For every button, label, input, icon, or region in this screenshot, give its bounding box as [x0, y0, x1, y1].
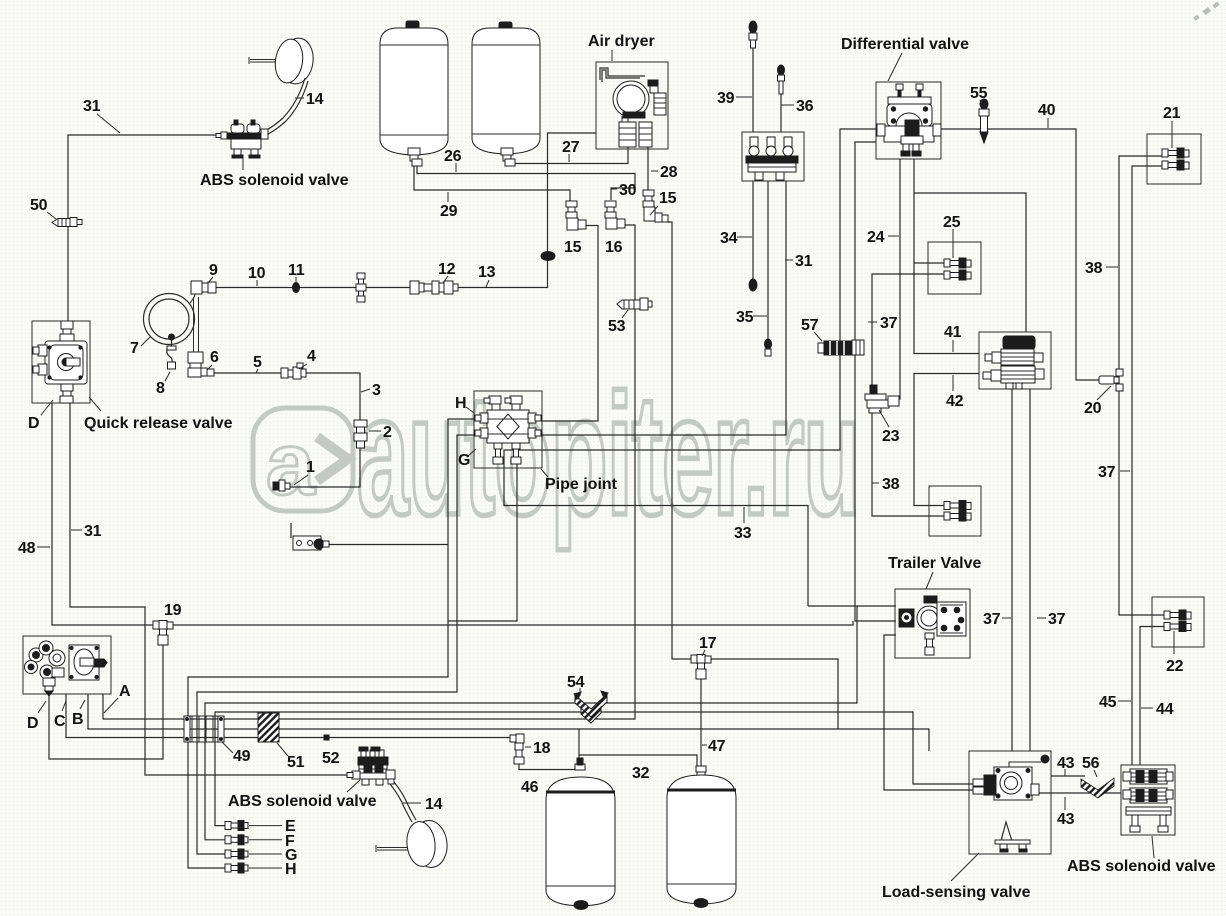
svg-text:Quick release valve: Quick release valve — [84, 415, 233, 432]
svg-text:8: 8 — [156, 380, 165, 397]
svg-text:52: 52 — [322, 750, 340, 767]
F fitting — [225, 835, 248, 845]
svg-text:51: 51 — [287, 754, 305, 771]
svg-text:5: 5 — [253, 354, 262, 371]
watermark autopiter.ru — [253, 360, 859, 551]
fitting 36 — [778, 65, 785, 94]
svg-text:15: 15 — [659, 190, 677, 207]
svg-text:D: D — [28, 415, 39, 432]
four-circuit protection valve box — [23, 636, 111, 694]
air tank top 2 — [472, 22, 540, 154]
bulkhead union — [356, 273, 366, 302]
wire compressor line 13 riser to air dryer — [458, 133, 596, 288]
svg-text:22: 22 — [1166, 658, 1184, 675]
grommet bead on riser — [541, 252, 555, 261]
svg-text:30: 30 — [619, 182, 637, 199]
wire A-line elbow16 down to four-circuit valve A — [103, 225, 635, 719]
svg-text:53: 53 — [608, 318, 626, 335]
svg-text:25: 25 — [943, 214, 961, 231]
elbow 6 below coil — [188, 352, 214, 377]
wire 31 from ABS solenoid valve to quick release valve — [68, 135, 225, 321]
wire 43 lower load sensing to ABS valve — [1037, 792, 1121, 794]
brake chamber top left — [249, 36, 316, 86]
wire valve 41/42 bottom drops to load-sensing — [1012, 389, 1030, 751]
four-circuit protection valve — [25, 641, 108, 696]
wire trailer valve port2 to load sensing — [884, 635, 973, 790]
E fitting — [225, 821, 248, 831]
wire 24 differential valve to fitting 23 — [890, 159, 900, 399]
wire 29 tank1 to elbow 15L — [414, 166, 570, 201]
svg-text:54: 54 — [567, 674, 585, 691]
svg-text:49: 49 — [233, 748, 251, 765]
svg-text:Differential valve: Differential valve — [841, 36, 969, 53]
svg-text:31: 31 — [83, 98, 101, 115]
ABS solenoid valve bottom-left — [347, 747, 395, 785]
hose 14 top — [264, 78, 305, 131]
svg-text:Air dryer: Air dryer — [588, 33, 655, 50]
fitting 23 — [865, 385, 899, 413]
wire 42 valve to box 38 upper — [914, 374, 979, 506]
bead 34 end — [749, 279, 757, 291]
elbow 18 — [510, 734, 524, 764]
hatch block 51 — [258, 713, 279, 742]
box 21 — [1147, 134, 1201, 184]
wire C-line to elbow 18 — [66, 694, 511, 738]
svg-text:19: 19 — [164, 602, 182, 619]
pipe joint box — [474, 391, 542, 468]
svg-text:9: 9 — [209, 262, 218, 279]
svg-text:14: 14 — [306, 91, 324, 108]
svg-text:15: 15 — [564, 239, 582, 256]
wire 32 tank1 to tank2 — [579, 755, 697, 766]
wire G-line pipe joint G port — [197, 435, 474, 854]
svg-text:37: 37 — [983, 611, 1001, 628]
air tank bottom 2 — [667, 766, 736, 908]
differential valve box — [876, 82, 941, 159]
union 12 — [410, 281, 458, 294]
svg-text:48: 48 — [18, 540, 36, 557]
tee 19 — [153, 621, 173, 646]
svg-text:13: 13 — [478, 264, 496, 281]
air tank top 1 — [380, 21, 448, 155]
wire from quick release valve bottom to tee 19 route — [70, 403, 350, 775]
svg-text:17: 17 — [699, 635, 717, 652]
svg-text:34: 34 — [720, 230, 738, 247]
svg-text:31: 31 — [84, 523, 102, 540]
svg-text:10: 10 — [248, 265, 266, 282]
differential valve — [877, 84, 941, 156]
svg-text:2: 2 — [383, 424, 392, 441]
svg-text:6: 6 — [210, 349, 219, 366]
svg-text:38: 38 — [1085, 260, 1103, 277]
brake chamber bottom — [376, 819, 449, 869]
trailer valve — [899, 596, 966, 655]
coil 7 — [144, 290, 197, 345]
bracket — [291, 523, 329, 550]
svg-text:50: 50 — [30, 197, 48, 214]
trailer valve box — [895, 589, 970, 658]
box 25 — [928, 242, 981, 294]
fitting 53 — [617, 298, 652, 310]
svg-text:28: 28 — [660, 164, 678, 181]
wire 35 foot valve drop — [767, 181, 769, 340]
wire fitting 39 stem — [752, 48, 754, 132]
ABS solenoid valve bottom-right — [1123, 769, 1173, 832]
wire 10 elbow9 to union 12 — [214, 287, 410, 289]
wire 28/47 elbow15R to tee 17 — [667, 222, 838, 729]
wire trailer valve lower-left feed — [855, 142, 896, 621]
wire 37/38 box25 lower to box 38 lower — [872, 274, 944, 516]
svg-text:37: 37 — [880, 315, 898, 332]
svg-text:16: 16 — [605, 239, 623, 256]
union 4 — [281, 363, 306, 379]
pipe joint — [475, 396, 541, 464]
quick release valve — [33, 321, 87, 403]
wire 33 differential valve to trailer valve — [504, 129, 876, 606]
wire 5 line elbow6 to union 4 to item 2 — [213, 373, 360, 487]
svg-text:B: B — [72, 711, 83, 728]
svg-text:45: 45 — [1099, 694, 1117, 711]
svg-text:Trailer Valve: Trailer Valve — [888, 555, 982, 572]
solenoid valve 41/42 — [983, 336, 1044, 389]
svg-text:D: D — [27, 715, 38, 732]
fitting 50 — [52, 218, 82, 227]
dot 52 — [324, 735, 329, 740]
svg-text:38: 38 — [882, 476, 900, 493]
fittings 21 — [1162, 148, 1189, 170]
clamp 49 — [184, 716, 224, 742]
svg-text:G: G — [458, 452, 470, 469]
G fitting — [225, 849, 248, 859]
svg-text:A: A — [119, 683, 131, 700]
box 22 — [1152, 597, 1204, 647]
bead 11 — [293, 283, 300, 293]
svg-text:36: 36 — [796, 98, 814, 115]
svg-text:29: 29 — [440, 203, 458, 220]
svg-text:37: 37 — [1098, 464, 1116, 481]
wire pipe joint right to foot valve drop — [542, 181, 786, 435]
wire 46 elbow18 to tank1 — [519, 757, 575, 770]
svg-text:31: 31 — [795, 253, 813, 270]
bead 35 end — [765, 339, 772, 356]
svg-text:autopiter.ru: autopiter.ru — [357, 360, 859, 551]
svg-text:12: 12 — [438, 261, 456, 278]
wire 34 foot valve drop — [752, 181, 754, 281]
svg-text:Pipe joint: Pipe joint — [545, 476, 618, 493]
svg-text:42: 42 — [946, 393, 964, 410]
svg-text:ABS solenoid valve: ABS solenoid valve — [200, 172, 349, 189]
wire 43 upper — [1051, 775, 1085, 777]
wire box 21 upper to box 22 upper via fitting 20 — [1119, 156, 1164, 615]
svg-text:4: 4 — [307, 348, 316, 365]
svg-text:57: 57 — [801, 317, 819, 334]
svg-text:44: 44 — [1156, 701, 1174, 718]
wire E-line pipe joint H to fitting E... load sensing — [215, 712, 973, 826]
drain valve 8 — [167, 334, 176, 369]
wire 48 quick release valve D to tee 19 line — [52, 403, 853, 625]
svg-text:41: 41 — [944, 324, 962, 341]
svg-text:14: 14 — [425, 796, 443, 813]
elbow 15 right — [643, 190, 668, 222]
wire coil stem — [194, 297, 199, 353]
wire to box 25 upper — [914, 262, 944, 264]
ABS solenoid valve bottom-right box — [1121, 765, 1175, 835]
tank1 bottom elbow fitting — [408, 148, 422, 166]
wire 44 box 22 lower down to ABS valve — [1140, 627, 1164, 766]
box 38 — [929, 486, 981, 536]
load-sensing valve — [973, 755, 1049, 852]
svg-text:33: 33 — [734, 525, 752, 542]
valve 41/42 box — [979, 332, 1051, 389]
foot brake valve — [742, 132, 804, 181]
svg-text:47: 47 — [708, 738, 726, 755]
ABS solenoid valve top-left — [216, 120, 268, 158]
quick release valve box — [32, 321, 90, 403]
svg-text:32: 32 — [632, 765, 650, 782]
fittings 22 — [1164, 610, 1191, 654]
svg-text:H: H — [455, 395, 466, 412]
svg-text:56: 56 — [1082, 755, 1100, 772]
wire 26 tank1 to elbow 16 — [417, 166, 635, 200]
svg-text:C: C — [54, 713, 66, 730]
svg-text:39: 39 — [717, 90, 735, 107]
svg-text:ABS solenoid valve: ABS solenoid valve — [228, 793, 377, 810]
wire F-line to trailer valve — [205, 606, 896, 840]
elbow 9 — [191, 281, 216, 294]
H fitting — [225, 863, 248, 873]
svg-text:26: 26 — [444, 148, 462, 165]
fittings 25 — [944, 258, 971, 280]
fitting 20 — [1099, 369, 1123, 391]
svg-text:43: 43 — [1057, 755, 1075, 772]
tank2 bottom elbow fitting — [501, 148, 515, 166]
svg-text:23: 23 — [882, 428, 900, 445]
air dryer box — [596, 62, 668, 149]
hose 14 bottom — [390, 784, 412, 822]
wire D-line to tee 19 — [49, 645, 163, 759]
plug 1 — [273, 480, 290, 491]
svg-text:18: 18 — [533, 740, 551, 757]
chevron 56 — [1081, 778, 1114, 798]
air tank bottom 1 — [546, 758, 615, 910]
wire 27 tank2 to air dryer — [514, 147, 628, 164]
wire tank1 tap from B-line — [578, 729, 580, 765]
svg-text:35: 35 — [736, 309, 754, 326]
svg-text:40: 40 — [1038, 102, 1056, 119]
svg-text:21: 21 — [1163, 105, 1181, 122]
svg-text:Load-sensing valve: Load-sensing valve — [882, 884, 1031, 901]
fitting 39 — [749, 21, 757, 48]
wire pipe joint bottom right to E/F riser band — [448, 464, 517, 621]
wire fitting 36 stem — [780, 94, 782, 132]
svg-text:7: 7 — [130, 340, 139, 357]
svg-text:27: 27 — [562, 139, 580, 156]
svg-text:1: 1 — [306, 459, 315, 476]
wire 40 differential valve to fitting 20 — [941, 129, 1099, 380]
tee 17 — [691, 655, 711, 680]
svg-text:11: 11 — [288, 262, 305, 279]
svg-text:37: 37 — [1048, 611, 1066, 628]
fittings 38 — [944, 501, 971, 522]
wire 45 box 21 lower down to ABS valve — [1132, 166, 1162, 765]
wire elbow 15L to pipe joint riser — [542, 226, 598, 422]
svg-text:20: 20 — [1084, 400, 1102, 417]
wire H-line pipe joint H port — [188, 419, 474, 868]
wire to valve 41/42 top — [914, 193, 1026, 332]
wire 28 air dryer to elbow 15R — [647, 147, 649, 190]
wire differential valve bottom to valve 41 — [914, 159, 979, 354]
svg-text:3: 3 — [372, 382, 381, 399]
air dryer — [600, 68, 666, 147]
svg-text:24: 24 — [867, 229, 885, 246]
svg-text:55: 55 — [970, 85, 988, 102]
svg-text:46: 46 — [521, 779, 539, 796]
fitting 55 — [979, 99, 989, 143]
elbow 16 — [605, 201, 625, 229]
svg-text:43: 43 — [1057, 811, 1075, 828]
wire B-line to tee17 riser and tank1 tap — [88, 694, 929, 751]
svg-text:ABS solenoid valve: ABS solenoid valve — [1067, 858, 1216, 875]
svg-text:H: H — [285, 861, 296, 878]
wire bracket to H riser — [326, 544, 448, 546]
wire 47 tee17 to tank2 — [700, 679, 702, 766]
union 2 vertical — [354, 420, 367, 448]
tiny corner watermark — [1193, 2, 1219, 21]
chevron 54 — [574, 691, 608, 723]
cylinder 57 — [818, 340, 864, 355]
elbow 15 left — [566, 201, 586, 230]
load-sensing valve box — [969, 751, 1051, 854]
